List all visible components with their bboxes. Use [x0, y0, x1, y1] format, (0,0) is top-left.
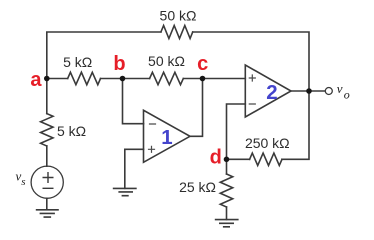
svg-text:vs: vs — [16, 169, 26, 188]
svg-text:2: 2 — [266, 81, 277, 104]
svg-text:50 kΩ: 50 kΩ — [148, 53, 185, 69]
svg-text:c: c — [197, 53, 208, 75]
svg-text:d: d — [210, 147, 222, 169]
svg-text:b: b — [113, 53, 125, 75]
svg-text:5 kΩ: 5 kΩ — [63, 54, 92, 70]
svg-text:50 kΩ: 50 kΩ — [160, 8, 197, 24]
svg-text:1: 1 — [161, 126, 172, 149]
svg-text:vo: vo — [337, 81, 350, 101]
svg-text:250 kΩ: 250 kΩ — [245, 135, 290, 151]
svg-text:a: a — [30, 69, 42, 91]
svg-text:25 kΩ: 25 kΩ — [179, 179, 216, 195]
svg-text:5 kΩ: 5 kΩ — [57, 123, 86, 139]
